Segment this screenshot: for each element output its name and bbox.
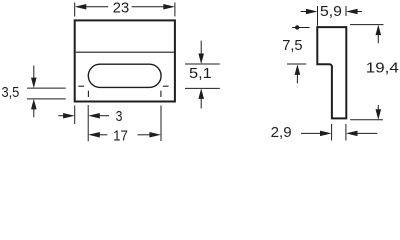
reference dot + line (7,5 top reference) [292, 27, 310, 29]
svg-text:3,5: 3,5 [1, 84, 19, 101]
dimension 3: arrows [58, 115, 64, 117]
extension tick C (slot right edge) [160, 106, 162, 142]
dimension 23: extension lines [74, 3, 76, 17]
hidden edge dash right (horizontal) [163, 85, 169, 87]
profile outline [317, 27, 346, 118]
hidden edge dash left (horizontal) [78, 85, 84, 87]
svg-text:17: 17 [113, 127, 128, 143]
dimension 19,4: extension lines [350, 24, 384, 26]
dimension 3,5: arrows [33, 66, 35, 79]
dimension 5,1: extension lines [185, 63, 220, 65]
svg-text:2,9: 2,9 [271, 124, 292, 141]
fold edge line [76, 51, 174, 53]
dimension 7,5: step extension line + up arrow [287, 63, 306, 65]
dimension 23: dimension line + arrows [86, 6, 109, 8]
svg-text:19,4: 19,4 [366, 60, 399, 77]
dimension 2,9: extension ticks [331, 124, 333, 141]
svg-text:5,9: 5,9 [320, 3, 342, 20]
hidden edge dash right (vertical) [160, 91, 162, 97]
dimension 17: line + arrows [99, 134, 107, 136]
dimension 5,9: arrows (outside, pointing in) [301, 11, 306, 13]
extension tick B (slot left edge) [87, 105, 89, 141]
part outline (front face) [75, 20, 175, 101]
extension tick A (part left edge) [74, 106, 76, 125]
dimension 19,4: arrows [377, 34, 379, 43]
dimension 5,9: extension lines [317, 6, 319, 26]
dimension 3,5: extension lines [27, 87, 66, 89]
dimension 5,1: arrows [200, 41, 202, 55]
dimension 2,9: arrows (outside, pointing in) [301, 132, 321, 134]
svg-text:5,1: 5,1 [189, 65, 212, 82]
slot (stadium opening) [88, 64, 161, 87]
hidden edge dash left (vertical) [87, 91, 89, 97]
svg-text:23: 23 [113, 0, 129, 16]
svg-text:7,5: 7,5 [282, 37, 302, 54]
svg-text:3: 3 [116, 108, 123, 125]
